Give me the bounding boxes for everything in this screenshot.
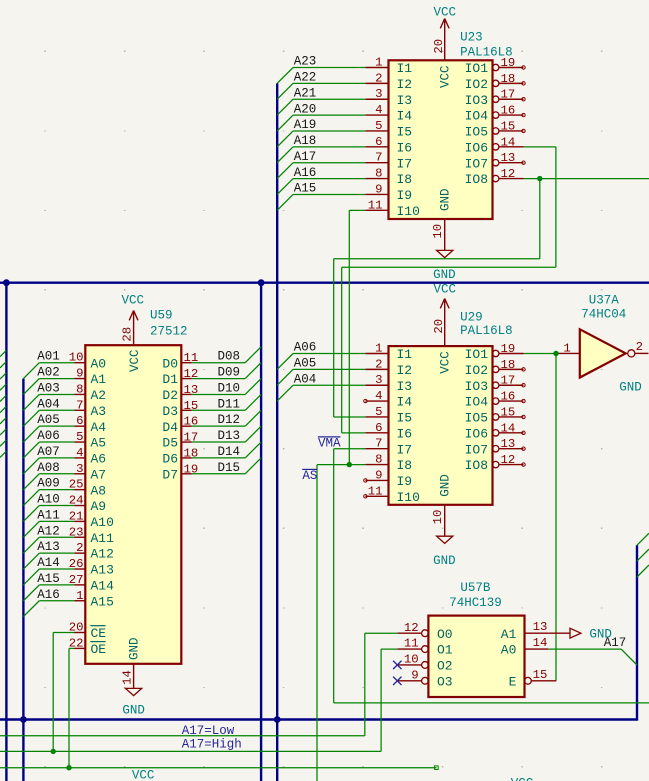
- U29 pin 10 GND name: [439, 474, 453, 497]
- svg-text:A15: A15: [37, 572, 60, 586]
- label A17: [294, 150, 317, 164]
- U23 pin 5 I5: [365, 119, 412, 140]
- U23 pin 3 I3: [365, 87, 412, 108]
- svg-text:GND: GND: [433, 268, 456, 282]
- wire A22 with bus entry: [277, 83, 365, 99]
- ground U29: [431, 505, 456, 568]
- svg-text:GND: GND: [122, 704, 145, 718]
- wire U57B O1 to A17=High line: [0, 649, 397, 751]
- label A04: [294, 372, 317, 386]
- U59 pin 14 GND name: [128, 637, 142, 660]
- U29 pin 16 IO4: [465, 390, 524, 410]
- svg-text:27512: 27512: [150, 324, 188, 338]
- label GND near U37A: [619, 381, 642, 395]
- svg-text:A04: A04: [294, 372, 317, 386]
- svg-text:IO4: IO4: [465, 395, 489, 410]
- svg-text:VCC: VCC: [434, 282, 457, 296]
- svg-text:O3: O3: [437, 674, 453, 689]
- bus entries right edge: [637, 533, 649, 577]
- wire D11 with bus entry: [192, 394, 261, 410]
- svg-text:A6: A6: [91, 452, 107, 467]
- svg-text:A17: A17: [604, 636, 627, 650]
- label A17=High: [182, 737, 242, 751]
- U29 pin 18 IO2: [465, 358, 524, 378]
- label A14: [37, 556, 60, 570]
- wire A05 with bus entry: [23, 426, 74, 442]
- label A15: [294, 182, 317, 196]
- svg-text:A11: A11: [37, 508, 60, 522]
- svg-text:E: E: [509, 674, 517, 689]
- svg-text:12: 12: [501, 167, 516, 181]
- U23 pin 7 I7: [365, 151, 412, 172]
- svg-text:17: 17: [501, 88, 516, 102]
- wire A18 with bus entry: [277, 147, 365, 163]
- U29 pin 6 I6: [365, 421, 412, 442]
- label D09: [218, 366, 241, 380]
- svg-text:A5: A5: [91, 436, 107, 451]
- U23 pin 1 I1: [365, 56, 412, 77]
- U59 pin 2 A12: [75, 541, 114, 562]
- svg-text:5: 5: [375, 119, 382, 133]
- svg-text:11: 11: [368, 198, 383, 212]
- U29 pin 14 IO6: [465, 421, 524, 441]
- label D13: [218, 429, 241, 443]
- wire D14 with bus entry: [192, 442, 261, 458]
- wire A17 from U57B A0 to bus entry: [548, 649, 637, 665]
- no-connect circles U23 outputs: [522, 66, 525, 165]
- svg-text:I10: I10: [397, 204, 420, 219]
- svg-text:3: 3: [76, 462, 83, 476]
- svg-text:I10: I10: [397, 490, 420, 505]
- junction at U29 IO1: [553, 351, 558, 356]
- ground arrow at U57B A1: [570, 628, 612, 642]
- svg-text:I4: I4: [397, 109, 413, 124]
- wire D12 with bus entry: [192, 410, 261, 426]
- svg-text:A3: A3: [91, 404, 107, 419]
- svg-text:IO8: IO8: [465, 172, 488, 187]
- svg-text:3: 3: [375, 373, 382, 387]
- svg-text:U57B: U57B: [460, 581, 491, 595]
- U29 pin 17 IO3: [465, 374, 524, 394]
- label A17: [604, 636, 627, 650]
- wire A23 with bus entry: [277, 68, 365, 84]
- bus C vertical: [260, 283, 262, 781]
- wire U23 IO6 net to U29 I6: [342, 147, 556, 433]
- svg-text:OE: OE: [91, 642, 107, 657]
- svg-text:IO2: IO2: [465, 363, 488, 378]
- wire A03 with bus entry: [23, 394, 74, 410]
- U59 pin 6 A4: [75, 414, 107, 435]
- svg-text:I2: I2: [397, 77, 413, 92]
- IC U29 PAL16L8 body: [389, 346, 493, 505]
- wire D09 with bus entry: [192, 363, 261, 379]
- label A02: [37, 366, 60, 380]
- U29 pin 15 IO5: [465, 405, 524, 425]
- U59 pin 28 VCC name: [128, 349, 142, 372]
- svg-text:GND: GND: [433, 554, 456, 568]
- U59 pin 7 A3: [75, 398, 107, 419]
- power VCC U29: [432, 282, 456, 346]
- wire AS net: [317, 465, 365, 781]
- bus A left vertical: [5, 283, 7, 781]
- svg-text:1: 1: [375, 342, 382, 356]
- svg-text:VCC: VCC: [511, 777, 534, 781]
- svg-text:19: 19: [501, 56, 516, 70]
- svg-text:2: 2: [375, 357, 382, 371]
- svg-text:I5: I5: [397, 125, 413, 140]
- U57B value 74HC139: [449, 596, 502, 610]
- svg-text:9: 9: [375, 182, 382, 196]
- wire A12 with bus entry: [23, 537, 74, 553]
- power VCC U23: [432, 6, 456, 61]
- svg-text:GND: GND: [128, 637, 142, 660]
- ground U59: [121, 664, 145, 718]
- U57B pin 10 O2: [397, 653, 452, 674]
- U59 pin 24 A9: [69, 494, 106, 515]
- label A20: [294, 102, 317, 116]
- U29 pin 19 IO1: [465, 342, 524, 362]
- svg-text:19: 19: [501, 342, 516, 356]
- U23 pin 15 IO5: [465, 119, 524, 139]
- label D08: [218, 350, 241, 364]
- U59 pin 25 A8: [69, 478, 106, 499]
- label A23: [294, 55, 317, 69]
- svg-text:VCC: VCC: [439, 65, 453, 88]
- U23 pin 8 I8: [365, 167, 412, 188]
- label VCC bottom left: [132, 768, 155, 781]
- svg-text:14: 14: [533, 636, 548, 650]
- label D15: [218, 461, 241, 475]
- svg-text:D14: D14: [218, 445, 241, 459]
- label A10: [37, 493, 60, 507]
- svg-text:2: 2: [375, 71, 382, 85]
- svg-text:A20: A20: [294, 102, 317, 116]
- U29 value PAL16L8: [460, 324, 513, 338]
- svg-text:I8: I8: [397, 458, 413, 473]
- U59 pin 15 D3: [162, 399, 198, 419]
- U57B pin 9 O3: [397, 668, 452, 689]
- U23 pin 12 IO8: [465, 167, 524, 187]
- svg-text:IO7: IO7: [465, 156, 488, 171]
- wire VMA net: [334, 449, 649, 703]
- svg-text:11: 11: [368, 484, 383, 498]
- wire A10 with bus entry: [23, 506, 74, 522]
- label A03: [37, 381, 60, 395]
- label VMA: [318, 436, 341, 450]
- bus F second left vertical: [22, 379, 24, 781]
- svg-text:O0: O0: [437, 627, 453, 642]
- svg-text:4: 4: [375, 103, 382, 117]
- U23 pin 13 IO7: [465, 151, 524, 171]
- U23 reference label: [460, 31, 483, 45]
- label A22: [294, 71, 317, 85]
- svg-text:16: 16: [501, 104, 516, 118]
- svg-text:I1: I1: [397, 347, 413, 362]
- svg-text:15: 15: [533, 668, 548, 682]
- svg-text:I6: I6: [397, 426, 413, 441]
- svg-text:A02: A02: [37, 366, 60, 380]
- svg-text:A15: A15: [294, 182, 317, 196]
- svg-text:D10: D10: [218, 381, 241, 395]
- U29 pin 12 IO8: [465, 453, 524, 473]
- svg-text:D3: D3: [162, 404, 178, 419]
- wire A07 with bus entry: [23, 458, 74, 474]
- svg-text:A0: A0: [501, 643, 517, 658]
- svg-text:U29: U29: [460, 310, 483, 324]
- svg-text:IO8: IO8: [465, 458, 488, 473]
- label A08: [37, 461, 60, 475]
- svg-text:I4: I4: [397, 395, 413, 410]
- U23 pin 11 I10: [365, 198, 420, 219]
- U23 pin 20 VCC name: [439, 65, 453, 88]
- svg-text:15: 15: [501, 405, 516, 419]
- no-connect circles U29: [364, 368, 526, 498]
- svg-text:A14: A14: [37, 556, 60, 570]
- wire D08 with bus entry: [192, 347, 261, 363]
- U59 pin 8 A2: [75, 382, 107, 403]
- wire A01 with bus entry: [23, 363, 74, 379]
- wire A19 with bus entry: [277, 131, 365, 147]
- U29 pin 7 I7: [365, 437, 412, 458]
- svg-text:I5: I5: [397, 411, 413, 426]
- label A18: [294, 134, 317, 148]
- svg-text:A22: A22: [294, 71, 317, 85]
- svg-text:14: 14: [121, 670, 135, 685]
- svg-text:4: 4: [375, 389, 382, 403]
- svg-text:D6: D6: [162, 452, 178, 467]
- svg-text:IO4: IO4: [465, 109, 489, 124]
- wire A11 with bus entry: [23, 521, 74, 537]
- U29 pin 2 I2: [365, 357, 412, 378]
- IC U59 27512 body: [85, 345, 181, 664]
- label A09: [37, 477, 60, 491]
- svg-text:A14: A14: [91, 578, 115, 593]
- wire A09 with bus entry: [23, 490, 74, 506]
- svg-text:A07: A07: [37, 445, 60, 459]
- bus junction at F-E: [20, 716, 27, 723]
- svg-text:A06: A06: [294, 341, 317, 355]
- svg-text:IO6: IO6: [465, 426, 488, 441]
- U23 value PAL16L8: [460, 46, 513, 60]
- U59 pin 9 A1: [75, 367, 107, 388]
- svg-text:D15: D15: [218, 461, 241, 475]
- svg-text:A03: A03: [37, 381, 60, 395]
- label VCC bottom right clipped: [511, 777, 534, 781]
- svg-text:28: 28: [121, 327, 135, 342]
- junction at U29 I8: [347, 462, 352, 467]
- svg-text:I3: I3: [397, 93, 413, 108]
- label A11: [37, 508, 60, 522]
- svg-text:I7: I7: [397, 442, 413, 457]
- label D14: [218, 445, 241, 459]
- svg-text:13: 13: [501, 437, 516, 451]
- svg-text:D12: D12: [218, 413, 241, 427]
- svg-text:5: 5: [375, 405, 382, 419]
- label D10: [218, 381, 241, 395]
- label D11: [218, 397, 241, 411]
- svg-text:VCC: VCC: [434, 6, 457, 20]
- svg-text:IO2: IO2: [465, 77, 488, 92]
- svg-text:A2: A2: [91, 388, 107, 403]
- wire A13 with bus entry: [23, 553, 74, 569]
- svg-text:IO5: IO5: [465, 125, 488, 140]
- IC U57B 74HC139 body: [428, 616, 524, 697]
- svg-text:6: 6: [375, 421, 382, 435]
- bus entries into bus A from left edge: [0, 351, 6, 458]
- wire down to U57B pin E: [555, 354, 557, 681]
- U23 pin 16 IO4: [465, 104, 524, 124]
- label A12: [37, 524, 60, 538]
- svg-text:20: 20: [432, 319, 446, 334]
- bus E bottom horizontal: [0, 718, 637, 720]
- svg-text:A13: A13: [37, 540, 60, 554]
- wire A15 with bus entry: [277, 194, 365, 210]
- wire A06 with bus entry: [277, 354, 365, 370]
- svg-text:14: 14: [501, 421, 516, 435]
- svg-text:PAL16L8: PAL16L8: [460, 324, 513, 338]
- svg-text:7: 7: [76, 398, 83, 412]
- svg-text:7: 7: [375, 151, 382, 165]
- svg-text:D2: D2: [162, 388, 178, 403]
- svg-text:14: 14: [501, 135, 516, 149]
- wire A15 with bus entry: [23, 585, 74, 601]
- svg-text:A7: A7: [91, 467, 107, 482]
- label A05: [37, 413, 60, 427]
- svg-text:9: 9: [411, 668, 418, 682]
- label A21: [294, 86, 317, 100]
- label A19: [294, 118, 317, 132]
- inverter U37A 74HC04 body: [580, 329, 626, 377]
- svg-text:D09: D09: [218, 366, 241, 380]
- U23 pin 18 IO2: [465, 72, 524, 92]
- svg-text:20: 20: [432, 39, 446, 54]
- U37A value 74HC04: [581, 308, 626, 322]
- U29 pin 1 I1: [365, 342, 412, 363]
- svg-text:A10: A10: [37, 493, 60, 507]
- svg-text:2: 2: [636, 340, 643, 354]
- svg-text:6: 6: [76, 414, 83, 428]
- svg-text:10: 10: [431, 224, 445, 239]
- svg-text:13: 13: [501, 151, 516, 165]
- svg-text:A1: A1: [91, 372, 107, 387]
- svg-text:A05: A05: [294, 357, 317, 371]
- svg-text:A16: A16: [37, 588, 60, 602]
- svg-text:A13: A13: [91, 563, 114, 578]
- svg-text:A18: A18: [294, 134, 317, 148]
- svg-text:12: 12: [404, 621, 419, 635]
- svg-text:74HC04: 74HC04: [581, 308, 626, 322]
- U23 pin 10 GND name: [439, 188, 453, 211]
- svg-text:I8: I8: [397, 172, 413, 187]
- svg-text:VCC: VCC: [121, 294, 144, 308]
- label D12: [218, 413, 241, 427]
- svg-text:VCC: VCC: [439, 351, 453, 374]
- svg-text:IO5: IO5: [465, 411, 488, 426]
- bus G right vertical: [636, 545, 638, 720]
- U37A pin 1 input: [557, 341, 580, 355]
- svg-text:A05: A05: [37, 413, 60, 427]
- U29 pin 4 I4: [365, 389, 412, 410]
- wire A16 with bus entry: [23, 601, 74, 617]
- U23 pin 19 IO1: [465, 56, 524, 76]
- wire A16 with bus entry: [277, 179, 365, 195]
- svg-text:A10: A10: [91, 515, 114, 530]
- svg-text:A21: A21: [294, 86, 317, 100]
- wire U59 OE down to VCC line: [69, 648, 75, 767]
- svg-text:D4: D4: [162, 420, 178, 435]
- svg-text:5: 5: [76, 430, 83, 444]
- U59 pin 12 D1: [162, 367, 198, 387]
- wire A08 with bus entry: [23, 474, 74, 490]
- svg-text:IO3: IO3: [465, 93, 488, 108]
- U37A reference: [589, 293, 620, 307]
- label A06: [37, 429, 60, 443]
- U59 value 27512: [150, 324, 188, 338]
- svg-text:17: 17: [501, 374, 516, 388]
- U29 pin 8 I8: [365, 453, 412, 474]
- svg-text:A12: A12: [91, 547, 114, 562]
- label A16: [294, 166, 317, 180]
- svg-text:I9: I9: [397, 474, 413, 489]
- wire U23 IO8 net to right edge: [334, 179, 649, 417]
- U59 pin 1 A15: [75, 589, 114, 610]
- svg-text:VCC: VCC: [132, 768, 155, 781]
- svg-text:11: 11: [404, 637, 419, 651]
- svg-text:10: 10: [431, 510, 445, 525]
- svg-text:7: 7: [375, 437, 382, 451]
- svg-text:A04: A04: [37, 397, 60, 411]
- U29 pin 3 I3: [365, 373, 412, 394]
- svg-text:3: 3: [375, 87, 382, 101]
- wire A05 with bus entry: [277, 369, 365, 385]
- svg-text:I3: I3: [397, 379, 413, 394]
- bus junction at C-B: [258, 279, 265, 286]
- U59 pin 20 CE: [69, 621, 107, 642]
- power VCC U59: [121, 294, 144, 346]
- U57B pin 11 O1: [397, 637, 453, 658]
- U59 pin 17 D5: [162, 431, 198, 451]
- svg-text:VCC: VCC: [128, 349, 142, 372]
- svg-text:A12: A12: [37, 524, 60, 538]
- U59 pin 19 D7: [162, 462, 198, 482]
- svg-text:AS: AS: [302, 469, 317, 483]
- U23 pin 9 I9: [365, 182, 412, 203]
- svg-text:A11: A11: [91, 531, 115, 546]
- label A06: [294, 341, 317, 355]
- U23 pin 2 I2: [365, 71, 412, 92]
- svg-text:A16: A16: [294, 166, 317, 180]
- U59 pin 22 OE: [69, 636, 107, 657]
- svg-text:6: 6: [375, 135, 382, 149]
- U57B pin 14 A0: [501, 636, 549, 658]
- svg-text:A17: A17: [294, 150, 317, 164]
- svg-text:IO1: IO1: [465, 61, 489, 76]
- svg-text:10: 10: [404, 653, 419, 667]
- wire A06 with bus entry: [23, 442, 74, 458]
- svg-text:D08: D08: [218, 350, 241, 364]
- U57B pin 13 A1: [501, 620, 549, 642]
- svg-text:12: 12: [501, 453, 516, 467]
- label A04: [37, 397, 60, 411]
- svg-text:18: 18: [501, 358, 516, 372]
- U59 pin 13 D2: [162, 383, 198, 403]
- svg-text:U37A: U37A: [589, 293, 620, 307]
- label A15: [37, 572, 60, 586]
- wire U57B O0 to A17=Low line: [0, 633, 397, 736]
- wire VCC bottom rail: [0, 766, 438, 770]
- svg-text:A19: A19: [294, 118, 317, 132]
- svg-text:D5: D5: [162, 436, 178, 451]
